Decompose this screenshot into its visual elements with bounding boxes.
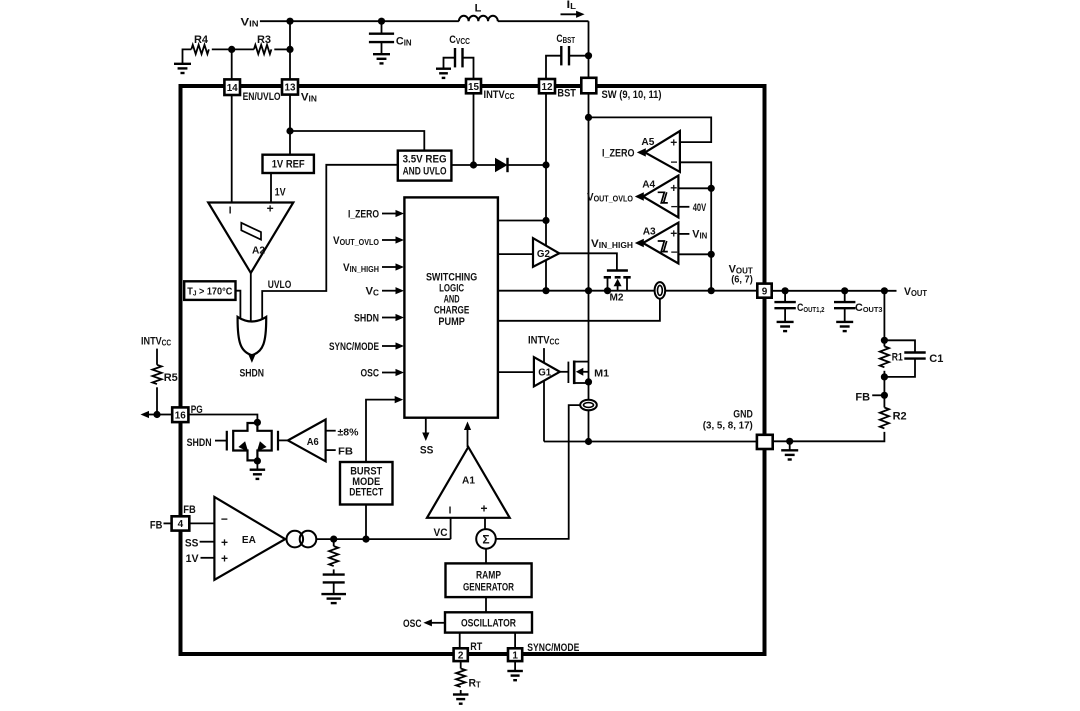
wire logic out to BST rail xyxy=(498,220,546,222)
transistor M2 xyxy=(607,269,628,272)
wire pin 16 to PG stage xyxy=(188,415,257,431)
svg-text:1V: 1V xyxy=(186,553,200,565)
box BURST MODE DETECT xyxy=(340,462,393,505)
svg-text:1V REF: 1V REF xyxy=(272,159,305,171)
inductor L xyxy=(459,16,498,21)
hysteresis symbol in A2 xyxy=(241,223,261,240)
svg-text:AND: AND xyxy=(444,293,460,305)
wire SHDN to left gate xyxy=(215,440,227,442)
svg-text:INTVCC: INTVCC xyxy=(484,89,515,101)
ground below CIN xyxy=(373,53,390,55)
wire sigma to current sense xyxy=(496,405,580,539)
summer sigma xyxy=(476,529,496,549)
wire A4 + to rail xyxy=(678,187,711,189)
op-amp A1 xyxy=(427,447,510,518)
wire CVCC right lead to pin 15 xyxy=(463,58,474,79)
wire A4 output arrow xyxy=(635,192,644,200)
node junction COUT1,2 xyxy=(782,287,789,294)
svg-text:+: + xyxy=(267,202,274,216)
svg-text:+: + xyxy=(480,502,487,516)
wire RT to ground xyxy=(460,690,462,695)
svg-text:DETECT: DETECT xyxy=(349,487,383,499)
svg-text:VC: VC xyxy=(366,286,380,298)
node junction SW line/switch line xyxy=(585,287,592,294)
pin 14 EN/UVLO xyxy=(224,79,240,95)
svg-text:VIN: VIN xyxy=(241,16,259,28)
wire G1 to M1 gate xyxy=(560,371,569,373)
wire OR gate output arrow xyxy=(251,354,253,357)
wire R3 junction to pin 13 line xyxy=(286,46,293,53)
wire TJ box to OR gate xyxy=(236,291,241,320)
svg-text:FB: FB xyxy=(855,391,870,403)
wire G1 bottom to GND line xyxy=(543,381,545,442)
box OSCILLATOR xyxy=(445,612,532,632)
svg-text:FB: FB xyxy=(150,520,163,532)
wire 1V stub xyxy=(201,557,215,559)
svg-text:13: 13 xyxy=(285,83,296,94)
wire A6 + input stub xyxy=(326,430,336,432)
wire A3 + stub VIN xyxy=(678,233,689,235)
ground below compensation xyxy=(321,593,346,595)
ground below pin 1 xyxy=(514,661,516,671)
node junction GND external xyxy=(786,438,793,445)
wire L to SW pin xyxy=(588,21,590,78)
svg-text:3.5V REG: 3.5V REG xyxy=(403,153,447,165)
transistor M1 xyxy=(567,362,569,383)
wire pin 13 down to 1V REF xyxy=(289,93,291,155)
wire pin 14 down to A2 input xyxy=(231,94,233,204)
box 1V REF xyxy=(263,155,314,173)
current sensor on VOUT line xyxy=(655,282,666,299)
node junction VIN-wire/pin13 xyxy=(286,18,293,25)
compensation capacitor xyxy=(333,569,335,574)
wire pin 12 down / internal BST rail xyxy=(545,93,547,291)
svg-text:40V: 40V xyxy=(693,202,707,214)
node junction comparator rail/VOUT line xyxy=(708,287,715,294)
node junction CBST/SW xyxy=(585,52,592,59)
wire comp cap to ground xyxy=(333,582,335,594)
pin 12 BST xyxy=(539,79,555,93)
wire R4-R3 junction xyxy=(212,48,254,50)
svg-text:OSC: OSC xyxy=(403,618,422,630)
svg-text:EA: EA xyxy=(242,534,256,546)
svg-text:R5: R5 xyxy=(164,372,178,384)
svg-text:VOUT_OVLO: VOUT_OVLO xyxy=(333,235,379,247)
capacitor CBST xyxy=(560,46,562,65)
box 3.5V REG AND UVLO xyxy=(398,151,452,181)
svg-text:IL: IL xyxy=(567,0,577,11)
svg-text:VOUT_OVLO: VOUT_OVLO xyxy=(587,192,633,204)
node junction SW/A5 wire xyxy=(585,114,592,121)
wire PG arrow out xyxy=(146,414,157,416)
wire VIN_HIGH input arrow xyxy=(382,266,398,268)
wire M1 source down xyxy=(588,362,590,400)
svg-text:RT: RT xyxy=(470,641,482,653)
pin 15 INTVCC xyxy=(466,79,481,93)
wire logic to G1 xyxy=(498,371,534,373)
svg-text:15: 15 xyxy=(468,82,479,93)
wire PG stage to ground xyxy=(256,460,258,469)
svg-text:GENERATOR: GENERATOR xyxy=(463,581,514,593)
wire SS stub xyxy=(200,541,215,543)
svg-text:FB: FB xyxy=(183,504,196,516)
node junction COUT3 xyxy=(841,287,848,294)
comparator A6 xyxy=(288,420,326,462)
pin 4 FB xyxy=(172,516,190,530)
pin 2 RT xyxy=(454,648,468,661)
resistor R1 xyxy=(880,346,889,367)
resistor R3 xyxy=(254,45,271,54)
svg-text:2: 2 xyxy=(458,650,464,661)
svg-text:CHARGE: CHARGE xyxy=(434,305,470,317)
wire VC up to A1 I input xyxy=(450,518,452,539)
svg-text:INTVCC: INTVCC xyxy=(141,336,171,348)
pin 9 VOUT xyxy=(757,284,771,298)
wire I_ZERO input arrow xyxy=(382,213,398,215)
svg-text:SHDN: SHDN xyxy=(240,368,265,380)
ground below RT xyxy=(453,693,469,695)
svg-text:OSC: OSC xyxy=(361,367,380,379)
wire R5 to PG node xyxy=(156,387,158,414)
wire SW to comparator rail xyxy=(589,117,712,142)
wire VC input arrow xyxy=(382,290,398,292)
wire GND dot to ground xyxy=(789,441,791,450)
svg-text:A6: A6 xyxy=(307,436,319,448)
svg-text:12: 12 xyxy=(542,82,553,93)
wire SHDN input arrow xyxy=(382,317,398,319)
wire logic to G2 xyxy=(498,253,533,255)
svg-text:BST: BST xyxy=(557,88,576,100)
wire PG node to pin 16 xyxy=(157,414,172,416)
wire oscillator to pin 2 xyxy=(459,633,461,649)
svg-text:+: + xyxy=(670,226,677,240)
svg-text:A4: A4 xyxy=(642,179,655,191)
wire A1 + input from sigma xyxy=(484,518,486,529)
svg-text:VOUT: VOUT xyxy=(904,286,927,298)
svg-text:SWITCHING: SWITCHING xyxy=(426,271,477,283)
resistor R2 xyxy=(880,408,889,429)
svg-text:OSCILLATOR: OSCILLATOR xyxy=(461,618,516,630)
wire comparator rail middle xyxy=(710,188,712,290)
svg-text:I: I xyxy=(449,506,452,517)
svg-text:INTVCC: INTVCC xyxy=(528,335,560,347)
node junction VIN/CIN xyxy=(378,18,385,25)
wire main switch line M2/VOUT xyxy=(498,290,758,292)
svg-text:SW (9, 10, 11): SW (9, 10, 11) xyxy=(602,89,662,101)
wire VOUT down to R1 xyxy=(883,291,885,347)
wire R4 left lead xyxy=(183,49,192,63)
svg-text:CIN: CIN xyxy=(396,36,412,48)
pin 1 SYNC/MODE xyxy=(508,648,522,661)
svg-text:C1: C1 xyxy=(929,353,943,365)
svg-text:CBST: CBST xyxy=(556,33,575,45)
svg-text:SS: SS xyxy=(420,445,434,457)
svg-text:SS: SS xyxy=(185,537,199,549)
gate bar left of PG stage xyxy=(226,431,228,451)
wire A6 - input stub xyxy=(326,449,336,451)
comparator A4 xyxy=(643,176,678,218)
svg-text:±8%: ±8% xyxy=(338,426,360,438)
svg-text:VIN_HIGH: VIN_HIGH xyxy=(591,238,633,250)
svg-text:1: 1 xyxy=(512,650,518,661)
comparator A5 xyxy=(645,131,680,172)
resistor R4 xyxy=(191,45,209,54)
diode D1 xyxy=(495,158,508,172)
wire SS output arrow xyxy=(425,418,427,436)
wire sigma to ramp generator xyxy=(485,549,487,564)
box RAMP GENERATOR xyxy=(446,563,532,597)
wire pin 15 down to regulator output xyxy=(473,93,475,165)
box SWITCHING LOGIC AND CHARGE PUMP xyxy=(404,197,498,417)
wire A6 output to right gate xyxy=(278,439,288,441)
wire OSC input arrow xyxy=(382,372,398,374)
node junction R1/R2/FB xyxy=(883,371,885,408)
wire R3 right lead xyxy=(274,48,290,50)
wire 3.5V REG output to diode xyxy=(451,164,495,166)
wire CVCC left lead to ground xyxy=(444,58,456,69)
ground below CVCC xyxy=(436,67,451,69)
svg-text:(6, 7): (6, 7) xyxy=(731,273,753,285)
transistor pair M3/M4 (PG drivers) xyxy=(233,423,272,460)
wire VOUT external rail xyxy=(771,290,896,292)
wire OSC arrow out of oscillator xyxy=(429,622,445,624)
svg-text:R2: R2 xyxy=(893,411,907,423)
svg-text:−: − xyxy=(671,245,678,259)
ground below PG stage xyxy=(250,469,266,471)
label FB node stub xyxy=(872,394,884,396)
svg-text:RAMP: RAMP xyxy=(476,569,501,581)
svg-text:VIN: VIN xyxy=(301,91,317,103)
svg-text:M1: M1 xyxy=(594,367,609,379)
wire SYNC/MODE input arrow xyxy=(382,345,398,347)
svg-text:14: 14 xyxy=(227,83,238,94)
wire internal GND line xyxy=(544,441,757,443)
ground below COUT1,2 xyxy=(777,321,794,323)
box TJ > 170C xyxy=(184,281,235,300)
wire oscillator to pin 1 xyxy=(514,633,516,649)
op-amp EA xyxy=(214,497,285,580)
pin GND (3,5,8,17) xyxy=(757,435,773,449)
svg-text:COUT1,2: COUT1,2 xyxy=(797,302,825,314)
svg-text:G2: G2 xyxy=(537,248,550,260)
capacitor CIN xyxy=(381,21,383,34)
svg-text:SHDN: SHDN xyxy=(354,312,379,324)
wire VIN top rail xyxy=(260,20,459,22)
svg-text:SYNC/MODE: SYNC/MODE xyxy=(329,341,379,353)
wire G2 to M2 gate xyxy=(559,253,617,269)
current sensor on M1 source xyxy=(580,400,597,411)
wire 1V REF to A2 + xyxy=(270,173,272,204)
wire VOUT_OVLO input arrow xyxy=(382,239,398,241)
svg-text:R3: R3 xyxy=(257,34,271,46)
compensation resistor xyxy=(333,539,335,546)
wire A2 output to OR gate xyxy=(250,273,252,322)
wire burst detect to logic box xyxy=(366,400,396,462)
wire current sense return from M2 sensor xyxy=(498,298,660,320)
wire CBST right lead xyxy=(569,55,589,57)
svg-text:VIN_HIGH: VIN_HIGH xyxy=(343,262,379,274)
capacitor C1 xyxy=(904,351,925,353)
wire INTVCC stub to G1 xyxy=(543,348,545,363)
wire ramp to oscillator xyxy=(485,597,487,612)
resistor RT xyxy=(460,661,462,669)
svg-text:A2: A2 xyxy=(252,244,265,256)
wire FB stub to pin 4 xyxy=(164,522,172,524)
capacitor C1 branch wires xyxy=(884,340,915,352)
svg-text:R4: R4 xyxy=(194,34,209,46)
svg-text:EN/UVLO: EN/UVLO xyxy=(243,91,281,103)
wire pin 4 to EA - input xyxy=(189,522,214,524)
svg-text:SHDN: SHDN xyxy=(187,437,212,449)
resistor R5 xyxy=(152,365,161,384)
svg-text:4: 4 xyxy=(178,519,184,530)
wire EA output to VC xyxy=(316,538,450,540)
capacitor COUT3 xyxy=(844,291,846,302)
svg-text:I: I xyxy=(229,206,232,217)
chip outline border xyxy=(181,86,765,654)
buffer G1 xyxy=(534,357,560,386)
node PG stage source xyxy=(254,457,261,464)
svg-text:I_ZERO: I_ZERO xyxy=(602,148,635,160)
wire R2 to GND pin xyxy=(773,432,885,441)
body arrow right in PG stage xyxy=(257,441,267,452)
svg-text:−: − xyxy=(671,200,678,214)
svg-text:A1: A1 xyxy=(462,475,475,487)
svg-text:−: − xyxy=(221,512,228,526)
svg-text:9: 9 xyxy=(762,286,768,297)
svg-text:G1: G1 xyxy=(538,367,551,379)
wire branch to 3.5V REG top xyxy=(290,131,424,151)
wire M1 sensor to GND line xyxy=(588,410,590,441)
ground below R4 xyxy=(174,63,191,65)
comparator A3 xyxy=(643,223,678,264)
svg-text:CVCC: CVCC xyxy=(449,34,470,46)
wire A5 output arrow xyxy=(637,148,646,156)
body arrow left in PG stage xyxy=(238,441,248,452)
gate bar right of PG stage xyxy=(277,431,279,451)
capacitor CVCC xyxy=(454,48,456,67)
svg-text:+: + xyxy=(221,551,228,565)
arrow IL current direction xyxy=(561,13,579,15)
node M2 source junction xyxy=(604,287,611,294)
op-amp A2 xyxy=(208,203,293,273)
wire SW line down to M1 drain xyxy=(588,93,590,362)
svg-text:16: 16 xyxy=(175,410,186,421)
hysteresis symbol in A4 xyxy=(658,192,668,203)
svg-text:RT: RT xyxy=(469,678,481,690)
svg-text:+: + xyxy=(670,135,677,149)
hysteresis symbol in A3 xyxy=(658,241,668,252)
svg-text:FB: FB xyxy=(338,446,353,458)
svg-text:Σ: Σ xyxy=(482,532,489,546)
wire A3 - to rail xyxy=(678,253,711,255)
wire A3 output arrow xyxy=(635,239,644,247)
pin SW (9,10,11) xyxy=(581,78,596,94)
svg-text:+: + xyxy=(670,181,677,195)
wire A4 - stub 40V xyxy=(678,206,689,208)
capacitor COUT1,2 xyxy=(784,291,786,302)
svg-text:VIN: VIN xyxy=(692,228,707,240)
ground at GND pin xyxy=(781,449,798,451)
pin 13 VIN xyxy=(282,79,298,94)
svg-text:A5: A5 xyxy=(641,136,654,148)
svg-text:1V: 1V xyxy=(275,187,287,199)
svg-text:+: + xyxy=(221,535,228,549)
gm output stage circles of EA xyxy=(287,531,304,548)
svg-text:AND UVLO: AND UVLO xyxy=(403,165,447,177)
svg-text:SYNC/MODE: SYNC/MODE xyxy=(527,642,579,654)
svg-text:UVLO: UVLO xyxy=(268,279,292,291)
wire A5 - to rail xyxy=(680,162,711,188)
wire CBST left lead to pin 12 xyxy=(546,56,561,79)
pin 16 PG xyxy=(172,407,188,422)
svg-text:R1: R1 xyxy=(892,352,903,364)
svg-text:A3: A3 xyxy=(643,225,656,237)
svg-text:COUT3: COUT3 xyxy=(855,302,883,314)
svg-text:M2: M2 xyxy=(610,292,624,304)
buffer G2 xyxy=(533,238,559,267)
wire burst detect input from VC node xyxy=(365,505,367,540)
svg-text:(3, 5, 8, 17): (3, 5, 8, 17) xyxy=(703,420,753,432)
or-gate U1 (shutdown logic) xyxy=(238,317,267,355)
wire VIN down to pin 13 xyxy=(289,21,291,80)
svg-text:PUMP: PUMP xyxy=(438,316,465,328)
wire diode to BST rail xyxy=(508,164,547,166)
svg-text:−: − xyxy=(670,155,677,169)
wire INTVCC stub to R5 xyxy=(156,349,158,365)
ground below COUT3 xyxy=(836,321,853,323)
wire A1 output arrow into logic box xyxy=(467,427,469,447)
svg-text:L: L xyxy=(475,3,482,15)
svg-text:I_ZERO: I_ZERO xyxy=(348,208,379,220)
wire EN/UVLO down to pin 14 xyxy=(231,49,233,80)
svg-text:VC: VC xyxy=(434,527,448,539)
wire UVLO from 3.5V REG to OR gate xyxy=(262,165,398,320)
